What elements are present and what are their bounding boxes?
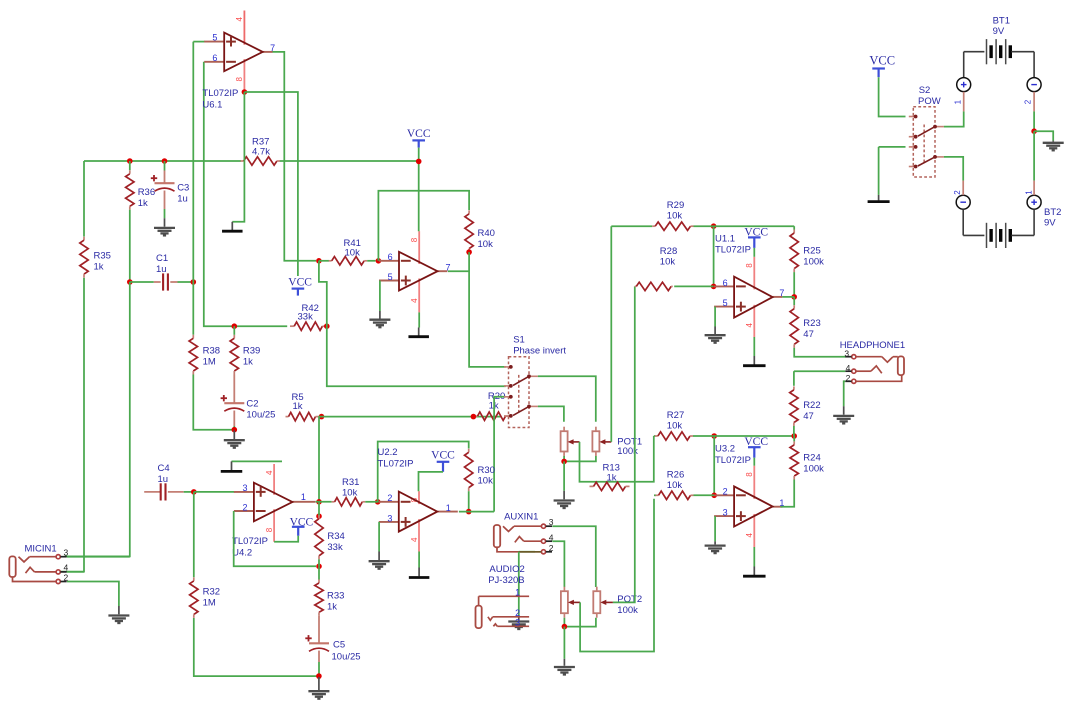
- svg-text:U2.2: U2.2: [378, 447, 398, 458]
- svg-text:1: 1: [301, 492, 306, 502]
- svg-text:8: 8: [745, 472, 754, 477]
- wire U6.1 pin6 column x203.8: [204, 62, 287, 326]
- ground C3: [164, 218, 166, 227]
- wire U3.2 pin3 to ground: [714, 516, 716, 541]
- wire POT2 wiper A to R26: [580, 499, 654, 652]
- wire BT1 minus to ground node: [1033, 111, 1035, 131]
- svg-text:3: 3: [387, 513, 392, 523]
- svg-text:2: 2: [1023, 99, 1032, 104]
- svg-text:10k: 10k: [667, 211, 683, 222]
- svg-text:R24: R24: [803, 453, 820, 464]
- node junction R27 right: [711, 433, 717, 439]
- ground POT1: [563, 491, 565, 500]
- svg-text:1: 1: [446, 503, 451, 513]
- svg-text:Phase invert: Phase invert: [513, 346, 566, 357]
- svg-text:10k: 10k: [667, 480, 683, 491]
- svg-text:10u/25: 10u/25: [246, 410, 275, 421]
- wire R23 to HEADPHONE pin3: [794, 348, 845, 357]
- capacitor C2: [233, 375, 235, 404]
- svg-text:8: 8: [235, 77, 244, 82]
- svg-text:MICIN1: MICIN1: [25, 544, 57, 555]
- resistor R32: [193, 577, 195, 581]
- svg-text:R29: R29: [667, 200, 684, 211]
- svg-text:TL072IP: TL072IP: [232, 536, 268, 547]
- svg-text:HEADPHONE1: HEADPHONE1: [840, 340, 905, 351]
- svg-text:AUXIN1: AUXIN1: [504, 512, 538, 523]
- wire R42 right to S1 throw: [327, 326, 506, 386]
- node junction R34 bottom: [316, 564, 322, 570]
- wire S2 lower throw to ground: [879, 146, 906, 148]
- resistor R39: [233, 335, 235, 339]
- resistor R29: [652, 225, 655, 227]
- potentiometer POT1 gang B: [592, 431, 599, 451]
- svg-text:U4.2: U4.2: [232, 548, 252, 559]
- svg-text:R34: R34: [327, 531, 344, 542]
- wire R32 bottom to C5 ground node: [194, 618, 319, 676]
- wire VCC to U1.1 pin8: [753, 248, 755, 257]
- wire C4 node to R32: [193, 492, 195, 577]
- node junction R42 right: [324, 323, 330, 329]
- wire R27 node to U3.2 pin2: [713, 436, 715, 495]
- ground C2: [233, 431, 235, 440]
- svg-text:S2: S2: [919, 85, 931, 96]
- resistor R33: [318, 566, 320, 579]
- wire POT2 wiper B up to R28: [613, 286, 635, 602]
- svg-text:VCC: VCC: [869, 54, 895, 68]
- wire R40 bottom to output and S1: [469, 252, 506, 367]
- wire U2.2 output riser to S1: [494, 397, 506, 512]
- connector AUXIN1: [494, 525, 500, 547]
- wire AUXIN pin4 to POT2 left: [552, 541, 564, 587]
- wire left rail x84 down: [83, 161, 85, 237]
- svg-text:TL072IP: TL072IP: [715, 455, 751, 466]
- op-amp U2.2 TL072IP: [379, 501, 399, 503]
- node junction battery center: [1031, 128, 1037, 134]
- node junction R5 right: [319, 414, 325, 420]
- svg-text:C4: C4: [158, 463, 170, 474]
- svg-text:1u: 1u: [158, 474, 169, 485]
- svg-text:1k: 1k: [243, 357, 253, 368]
- ground U6.2 pin5: [379, 311, 381, 319]
- op-amp U1.1 TL072IP: [714, 285, 734, 287]
- svg-text:2: 2: [549, 543, 554, 553]
- svg-text:1u: 1u: [177, 194, 188, 205]
- resistor R20: [475, 415, 478, 417]
- capacitor C1: [130, 281, 154, 283]
- svg-text:S1: S1: [513, 335, 525, 346]
- svg-text:BT1: BT1: [993, 16, 1010, 27]
- svg-text:4: 4: [410, 537, 419, 542]
- resistor R31: [332, 501, 335, 503]
- resistor R27: [654, 435, 656, 437]
- svg-text:8: 8: [410, 237, 419, 242]
- ground battery: [1052, 141, 1054, 142]
- node junction C1 left: [127, 279, 133, 285]
- wire R41 node jog to R42 right: [319, 261, 327, 326]
- svg-text:TL072IP: TL072IP: [715, 245, 751, 256]
- node junction C5 bottom: [316, 673, 322, 679]
- node junction C1 right: [191, 279, 197, 285]
- node junction POT2 bottom: [562, 624, 568, 630]
- svg-text:R33: R33: [327, 591, 344, 602]
- wire R5 to S1 long: [319, 416, 502, 418]
- svg-text:R35: R35: [94, 251, 111, 262]
- svg-text:PJ-320B: PJ-320B: [488, 575, 524, 586]
- node junction R20 left: [471, 414, 477, 420]
- node junction U1.1 output: [791, 294, 797, 300]
- capacitor C5: [318, 616, 320, 644]
- wire MICIN pin4: [67, 571, 84, 573]
- node junction R28 right: [711, 284, 717, 290]
- wire U1.1 pin5 to ground: [714, 307, 716, 327]
- svg-text:R39: R39: [243, 346, 260, 357]
- ground U2.2 pin4: [418, 568, 420, 577]
- wire HEADPHONE pin2 to ground: [844, 381, 846, 406]
- node junction C2 bottom: [232, 427, 238, 433]
- ground U6.2 pin4: [418, 328, 420, 336]
- wire POT2 bottoms join: [563, 618, 565, 627]
- svg-text:100k: 100k: [803, 464, 824, 475]
- svg-text:1M: 1M: [203, 357, 216, 368]
- switch S2 POW: [913, 107, 935, 177]
- svg-text:47: 47: [803, 329, 814, 340]
- svg-text:2: 2: [953, 190, 962, 195]
- op-amp U3.2 TL072IP: [714, 494, 734, 496]
- svg-text:AUDIO2: AUDIO2: [489, 564, 524, 575]
- wire U6.2 pin4 to ground: [418, 312, 420, 327]
- svg-text:1u: 1u: [156, 264, 167, 275]
- wire U6.2 feedback loop: [378, 191, 469, 261]
- svg-text:R23: R23: [803, 318, 820, 329]
- svg-text:1k: 1k: [607, 473, 617, 484]
- wire U4.2 pin4 to ground: [232, 460, 283, 462]
- svg-text:1k: 1k: [327, 602, 337, 613]
- svg-text:U6.1: U6.1: [202, 100, 222, 111]
- wire U4.2 pin2 feedback: [234, 511, 316, 566]
- svg-text:10k: 10k: [660, 257, 676, 268]
- resistor R42: [290, 325, 294, 327]
- node junction R40 bottom: [466, 249, 472, 255]
- ground U3.2 pin4: [753, 567, 755, 576]
- svg-text:R31: R31: [342, 477, 359, 488]
- wire POT1 bottoms join: [563, 456, 565, 461]
- wire HEADPHONE pin4 to R22: [794, 370, 845, 372]
- svg-text:1k: 1k: [94, 262, 104, 273]
- svg-text:R32: R32: [203, 587, 220, 598]
- wire U2.2 output: [459, 511, 494, 513]
- svg-text:VCC: VCC: [431, 449, 455, 461]
- capacitor C4: [144, 491, 161, 493]
- node junction C4 right: [191, 489, 197, 495]
- wire POT1 wiper B up to R29: [610, 226, 612, 442]
- svg-text:R30: R30: [478, 465, 495, 476]
- svg-text:100k: 100k: [617, 605, 638, 616]
- resistor R23: [793, 297, 795, 305]
- svg-text:C5: C5: [333, 640, 345, 651]
- svg-text:5: 5: [212, 33, 217, 43]
- wire U2.2 pin3 to ground: [378, 522, 380, 552]
- ground U1.1 pin5: [714, 327, 716, 335]
- svg-text:R28: R28: [660, 246, 677, 257]
- ground AUXIN pin2: [518, 617, 520, 621]
- ground C5: [318, 677, 320, 690]
- svg-text:U1.1: U1.1: [715, 233, 735, 244]
- svg-text:2: 2: [242, 502, 247, 512]
- node BT2 plus terminal: [1027, 195, 1041, 209]
- svg-text:10k: 10k: [342, 488, 358, 499]
- potentiometer POT2 gang A: [561, 591, 568, 613]
- resistor R13: [590, 485, 594, 487]
- svg-text:4.7k: 4.7k: [252, 147, 270, 158]
- ground U3.2 pin3: [714, 541, 716, 544]
- wire MICIN pin3: [67, 556, 130, 558]
- svg-text:10u/25: 10u/25: [332, 652, 361, 663]
- svg-text:3: 3: [515, 618, 520, 628]
- svg-text:TL072IP: TL072IP: [202, 88, 238, 99]
- svg-text:C3: C3: [177, 183, 189, 194]
- svg-text:2: 2: [387, 493, 392, 503]
- resistor R34: [318, 515, 320, 519]
- wire R29 left riser: [611, 225, 652, 227]
- svg-text:10k: 10k: [478, 476, 494, 487]
- wire U1.1 pin4 to ground: [753, 337, 755, 356]
- node junction R41 left: [316, 258, 322, 264]
- wire MICIN pin3 riser x129.8: [65, 282, 130, 556]
- node junction R39 top: [232, 323, 238, 329]
- resistor R22: [793, 371, 795, 386]
- wire R24 to U3.2 output: [781, 480, 795, 507]
- wire R29 node to U1.1 pin6: [713, 226, 715, 286]
- wire S2 common2 to BT2 minus: [944, 157, 963, 181]
- wire S2 common1 to BT1 plus: [944, 111, 964, 126]
- svg-text:U3.2: U3.2: [715, 444, 735, 455]
- wire U6.1 pin8 to VCC flag: [244, 92, 298, 276]
- svg-text:C1: C1: [156, 253, 168, 264]
- svg-text:C2: C2: [246, 399, 258, 410]
- op-amp U4.2 TL072IP: [234, 491, 254, 493]
- resistor R36: [129, 161, 131, 170]
- resistor R40: [468, 210, 470, 214]
- wire R31 node up to R30 loop: [378, 442, 469, 502]
- node junction U6.1 pin8: [242, 89, 248, 95]
- wire S1 common1 to POT1 right: [538, 376, 596, 422]
- svg-text:BT2: BT2: [1044, 207, 1061, 218]
- svg-text:TL072IP: TL072IP: [378, 459, 414, 470]
- wire U6.1 pin8 to ground: [232, 92, 244, 222]
- svg-text:1: 1: [954, 99, 963, 104]
- wire POT1 to ground: [563, 461, 565, 490]
- wire main top rail y161: [84, 160, 241, 162]
- ground S2: [878, 195, 880, 201]
- svg-text:3: 3: [723, 508, 728, 518]
- node junction U2.2 output: [466, 509, 472, 515]
- wire POT1 wiper A down to R27: [580, 436, 654, 482]
- svg-text:1k: 1k: [138, 198, 148, 209]
- resistor R35: [83, 237, 85, 241]
- resistor R24: [793, 436, 795, 441]
- node BT1 plus terminal: [957, 78, 971, 92]
- svg-text:7: 7: [446, 263, 451, 273]
- svg-text:R26: R26: [667, 470, 684, 481]
- resistor R25: [793, 226, 795, 229]
- svg-text:5: 5: [723, 298, 728, 308]
- svg-text:4: 4: [745, 533, 754, 538]
- svg-text:1k: 1k: [293, 401, 303, 412]
- svg-text:5: 5: [388, 272, 393, 282]
- svg-text:VCC: VCC: [288, 277, 312, 289]
- svg-text:33k: 33k: [327, 542, 343, 553]
- svg-text:R22: R22: [803, 400, 820, 411]
- svg-text:6: 6: [212, 53, 217, 63]
- node junction R41 right: [376, 258, 382, 264]
- svg-text:VCC: VCC: [407, 128, 431, 140]
- wire VCC to U2.2 pin8: [419, 472, 444, 491]
- resistor R38: [192, 335, 194, 339]
- svg-text:10k: 10k: [667, 421, 683, 432]
- wire U3.2 pin4 to ground: [753, 547, 755, 567]
- node junction R31 right: [375, 499, 381, 505]
- node junction C3 top: [162, 158, 168, 164]
- svg-text:R40: R40: [478, 228, 495, 239]
- svg-text:POW: POW: [918, 96, 941, 107]
- svg-text:6: 6: [388, 252, 393, 262]
- svg-text:1: 1: [515, 587, 520, 597]
- svg-text:R25: R25: [803, 246, 820, 257]
- node junction R26 right: [711, 493, 717, 499]
- svg-text:2: 2: [723, 487, 728, 497]
- node junction U4.2 output: [316, 499, 322, 505]
- ground MICIN: [118, 606, 120, 614]
- node BT1 minus terminal: [1027, 78, 1041, 92]
- wire R30 bottom to output: [468, 491, 470, 511]
- node junction VCC rail: [416, 159, 422, 165]
- wire U4.2 pin8 to VCC: [274, 536, 298, 542]
- resistor R28: [635, 285, 637, 287]
- node BT2 minus terminal: [956, 195, 970, 209]
- ground U2.2 pin3: [378, 552, 380, 561]
- svg-text:47: 47: [803, 411, 814, 422]
- op-amp U6.1 TL072IP: [204, 41, 224, 43]
- node junction R22/R24: [791, 433, 797, 439]
- wire U2.2 pin4 to ground: [418, 552, 420, 568]
- resistor R30: [468, 449, 470, 453]
- node junction POT1 bottom: [561, 459, 567, 465]
- svg-text:4: 4: [235, 17, 244, 22]
- wire MICIN pin2 to ground: [67, 582, 119, 607]
- svg-text:3: 3: [242, 483, 247, 493]
- wire U4.2 output to R31: [316, 501, 332, 503]
- resistor R5: [286, 416, 289, 418]
- svg-text:1: 1: [1025, 190, 1034, 195]
- wire U6.1 pin5 column x193.3: [193, 41, 205, 43]
- wire U6.2 pin5 to ground: [379, 281, 381, 312]
- svg-text:9V: 9V: [993, 26, 1005, 37]
- wire battery node to ground: [1034, 131, 1053, 140]
- svg-text:33k: 33k: [298, 312, 314, 323]
- svg-text:4: 4: [410, 298, 419, 303]
- wire AUXIN pin2 to ground: [519, 551, 535, 553]
- svg-text:R27: R27: [667, 410, 684, 421]
- wire VCC to U6.2 pin8: [418, 148, 420, 232]
- svg-text:4: 4: [745, 323, 754, 328]
- ground U4.2 pin4: [231, 461, 233, 470]
- ground U1.1 pin4: [753, 356, 755, 365]
- svg-text:6: 6: [723, 278, 728, 288]
- wire AUXIN pin3 to POT2 right: [552, 526, 596, 587]
- svg-text:8: 8: [745, 263, 754, 268]
- wire POT2 to ground: [563, 627, 565, 659]
- wire VCC to U3.2 pin8: [753, 458, 755, 466]
- svg-text:R38: R38: [203, 346, 220, 357]
- resistor R41: [319, 260, 329, 262]
- svg-text:100k: 100k: [803, 257, 824, 268]
- svg-text:9V: 9V: [1044, 218, 1056, 229]
- svg-text:10k: 10k: [478, 239, 494, 250]
- svg-text:R36: R36: [138, 187, 155, 198]
- connector MICIN1: [9, 556, 15, 577]
- svg-text:2: 2: [515, 608, 520, 618]
- ground POT2: [563, 659, 565, 666]
- node junction R34 top: [316, 513, 322, 519]
- node junction R29 right: [711, 223, 717, 229]
- svg-text:POT2: POT2: [617, 594, 642, 605]
- resistor R37: [241, 160, 244, 162]
- wire battery node to BT2 plus: [1033, 131, 1035, 180]
- switch S1 Phase invert: [509, 357, 530, 428]
- svg-text:4: 4: [265, 470, 274, 475]
- node junction R36 top: [127, 158, 133, 164]
- potentiometer POT1 gang A: [561, 431, 568, 451]
- svg-text:8: 8: [265, 527, 274, 532]
- ground HEADPHONE pin2: [843, 406, 845, 415]
- wire VCC to S2: [879, 77, 906, 116]
- svg-text:10k: 10k: [345, 248, 361, 259]
- potentiometer POT2 gang B: [593, 591, 600, 613]
- ground U6.1: [231, 222, 233, 230]
- capacitor C3: [164, 161, 166, 171]
- wire U6.1 output down: [272, 51, 274, 53]
- wire S1 common2 to POT1 left: [538, 406, 564, 421]
- wire R5 node to U4.2 output: [318, 417, 320, 500]
- svg-text:1M: 1M: [203, 598, 216, 609]
- resistor R26: [654, 494, 656, 496]
- op-amp U6.2 TL072IP: [379, 260, 399, 262]
